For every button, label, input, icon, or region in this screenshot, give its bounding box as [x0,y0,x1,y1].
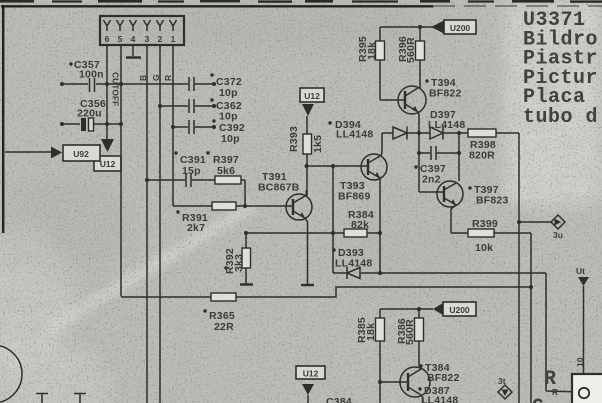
svg-text:22R: 22R [214,321,234,333]
svg-text:1: 1 [171,34,176,44]
svg-text:220u: 220u [77,108,102,120]
svg-text:B: B [138,75,148,81]
svg-text:U12: U12 [304,91,320,101]
svg-text:10k: 10k [475,242,493,254]
svg-text:560R: 560R [405,37,417,63]
svg-text:4: 4 [131,34,136,44]
svg-text:1k5: 1k5 [312,135,324,153]
svg-text:G: G [532,396,545,403]
svg-text:G: G [151,74,161,81]
svg-text:BF869: BF869 [338,191,371,203]
svg-text:R393: R393 [288,126,300,152]
svg-text:U200: U200 [449,305,470,315]
svg-text:3t: 3t [498,376,506,386]
svg-text:3: 3 [145,34,150,44]
svg-text:10p: 10p [221,133,240,145]
svg-text:LL4148: LL4148 [421,395,458,403]
svg-text:R: R [163,75,173,81]
svg-text:18k: 18k [365,323,377,341]
svg-text:10p: 10p [219,111,238,123]
svg-text:10: 10 [575,357,585,367]
svg-text:R: R [552,387,558,397]
svg-text:R399: R399 [472,218,498,230]
svg-text:BF822: BF822 [427,372,460,384]
svg-text:U12: U12 [100,159,116,169]
svg-text:C384: C384 [326,396,352,403]
svg-text:3u: 3u [553,230,563,240]
svg-text:2n2: 2n2 [422,174,441,186]
svg-text:tubo d: tubo d [523,106,598,129]
svg-text:560R: 560R [404,319,416,345]
svg-text:U92: U92 [73,149,89,159]
svg-text:BF822: BF822 [429,88,462,100]
svg-text:BF823: BF823 [476,195,509,207]
svg-text:6: 6 [105,34,110,44]
svg-text:Ut: Ut [576,266,585,276]
svg-text:LL4148: LL4148 [428,119,465,131]
svg-text:2k7: 2k7 [187,222,205,234]
svg-text:100n: 100n [79,69,104,81]
svg-text:82k: 82k [351,219,369,231]
svg-text:10p: 10p [219,87,238,99]
svg-text:5: 5 [118,34,123,44]
svg-text:LL4148: LL4148 [336,129,373,141]
svg-text:2: 2 [158,34,163,44]
svg-text:820R: 820R [469,150,495,162]
svg-text:LL4148: LL4148 [335,258,372,270]
svg-text:U200: U200 [450,23,471,33]
svg-text:3k3: 3k3 [233,254,245,272]
svg-text:U12: U12 [303,369,319,379]
svg-text:18k: 18k [366,42,378,60]
svg-text:BC867B: BC867B [258,182,300,194]
svg-text:5k6: 5k6 [217,165,235,177]
svg-text:CUTOFF: CUTOFF [111,72,121,106]
svg-text:15p: 15p [182,165,201,177]
